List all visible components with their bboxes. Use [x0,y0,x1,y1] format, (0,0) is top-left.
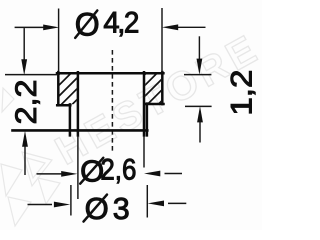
hole left ext down [77,135,79,199]
dia 3 dim line left [28,204,53,206]
dia 2,6 arrow right [61,171,77,177]
svg-text:2: 2 [124,7,139,39]
dia 2,6 dim line right [165,173,183,175]
dia 2,6 dim line left [37,173,63,175]
slash of dia 2,6 symbol [80,158,103,184]
flange bottom step left [57,104,70,107]
bushing outline [13,72,164,135]
slash of top dia symbol [75,11,97,38]
2,2 arrow up [22,131,28,147]
body left ext down [70,185,72,216]
flange bottom step right [145,103,163,106]
dia 2,6 arrow left [144,171,160,177]
hole right edge [143,72,146,135]
top dim extension right [161,8,163,72]
dimension texts [11,6,259,226]
body left edge [69,104,72,135]
arrowheads [21,24,203,207]
2,2 lower arrow line [24,145,26,176]
diameter slashes through the O glyphs [75,11,107,222]
1,2 arrow up [197,106,203,122]
dia 3 arrow left [148,201,164,207]
body right edge [146,104,149,136]
top dim arrow left (points right) [43,25,59,31]
1,2 upper arrow line [198,36,200,61]
2,2 arrow down [21,59,27,75]
1,2 lower arrow line [199,120,201,143]
flange left outer edge [57,72,60,105]
svg-text:1,2: 1,2 [227,70,259,116]
dia 3 dim line right [168,202,186,204]
svg-text:2,6: 2,6 [100,155,136,187]
body right ext down [146,185,148,218]
top dim line left [15,26,48,28]
flange top line [57,72,163,75]
2,2 upper arrow line [23,28,25,62]
flange bottom ext to right [185,105,212,107]
hole left edge [77,72,80,135]
flange top ext to right [184,74,211,76]
hatch right flange section [120,59,187,126]
top dim line right [174,26,206,28]
svg-text:2,2: 2,2 [11,80,43,125]
1,2 arrow down [197,59,203,75]
top dim arrow right (points left) [162,24,178,30]
slash of dia 3 symbol [84,195,108,222]
svg-text:3: 3 [113,192,130,226]
top dim extension left [58,9,60,72]
dimension lines [5,8,212,218]
hole right ext down [143,135,145,167]
bottom line with left extension [13,129,148,132]
hatch left flange section [29,54,101,126]
dia 3 arrow right [54,202,70,208]
flange right outer edge [161,72,164,104]
flange top ext to left [5,74,59,76]
centerline [111,50,113,154]
watermark logo triangles [1,88,60,226]
